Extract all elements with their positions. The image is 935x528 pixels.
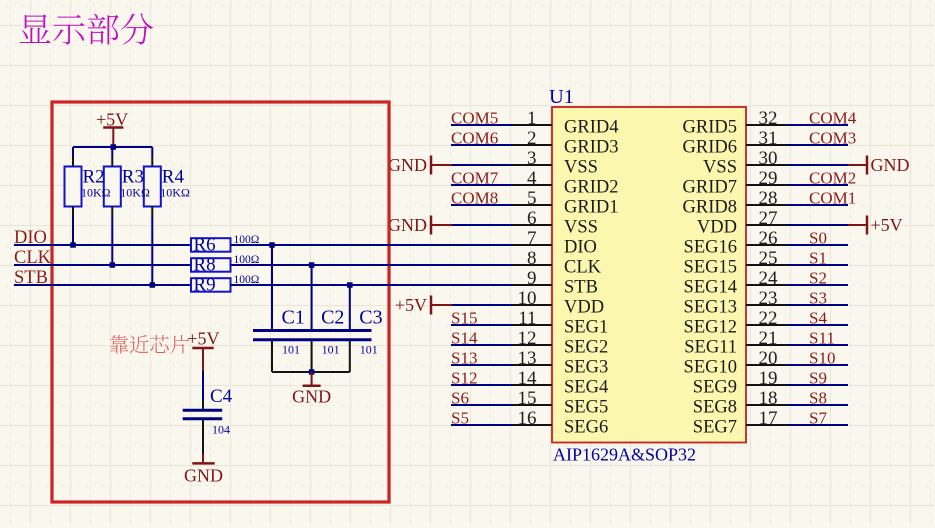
svg-text:S13: S13 xyxy=(451,349,477,368)
svg-text:VSS: VSS xyxy=(564,218,598,238)
svg-text:+5V: +5V xyxy=(395,295,427,315)
svg-text:SEG8: SEG8 xyxy=(693,398,737,418)
svg-text:SEG2: SEG2 xyxy=(564,338,608,358)
svg-text:SEG9: SEG9 xyxy=(693,378,737,398)
svg-text:S3: S3 xyxy=(809,289,827,308)
svg-text:104: 104 xyxy=(212,423,230,437)
svg-text:S14: S14 xyxy=(451,329,478,348)
svg-text:C1: C1 xyxy=(282,307,305,329)
svg-text:R4: R4 xyxy=(162,167,185,188)
svg-text:S12: S12 xyxy=(451,369,477,388)
svg-text:COM8: COM8 xyxy=(451,189,498,208)
svg-text:S0: S0 xyxy=(809,229,827,248)
svg-text:SEG3: SEG3 xyxy=(564,358,608,378)
svg-text:COM1: COM1 xyxy=(809,189,856,208)
svg-text:COM7: COM7 xyxy=(451,169,499,188)
svg-text:S2: S2 xyxy=(809,269,827,288)
svg-text:10KΩ: 10KΩ xyxy=(120,186,150,200)
svg-text:S7: S7 xyxy=(809,409,827,428)
svg-text:SEG6: SEG6 xyxy=(564,418,608,438)
svg-text:S6: S6 xyxy=(451,389,469,408)
svg-text:GRID4: GRID4 xyxy=(564,118,618,138)
svg-text:SEG11: SEG11 xyxy=(684,338,737,358)
svg-text:GRID3: GRID3 xyxy=(564,138,618,158)
svg-text:GRID1: GRID1 xyxy=(564,198,618,218)
svg-text:GND: GND xyxy=(388,155,427,175)
svg-text:GRID5: GRID5 xyxy=(683,118,737,138)
svg-text:GND: GND xyxy=(184,466,223,486)
svg-text:DIO: DIO xyxy=(564,238,597,258)
svg-text:100Ω: 100Ω xyxy=(234,254,260,266)
svg-text:101: 101 xyxy=(360,343,378,357)
svg-text:+5V: +5V xyxy=(187,329,219,349)
svg-text:VDD: VDD xyxy=(564,298,604,318)
svg-text:COM3: COM3 xyxy=(809,129,856,148)
svg-text:COM4: COM4 xyxy=(809,109,857,128)
svg-text:SEG15: SEG15 xyxy=(684,258,737,278)
svg-text:C4: C4 xyxy=(210,386,233,407)
svg-text:100Ω: 100Ω xyxy=(234,274,260,286)
svg-text:S4: S4 xyxy=(809,309,827,328)
svg-text:SEG14: SEG14 xyxy=(684,278,737,298)
svg-text:AIP1629A&SOP32: AIP1629A&SOP32 xyxy=(553,445,696,465)
svg-text:10KΩ: 10KΩ xyxy=(160,186,190,200)
svg-text:GRID6: GRID6 xyxy=(683,138,737,158)
svg-text:COM2: COM2 xyxy=(809,169,856,188)
svg-text:S5: S5 xyxy=(451,409,469,428)
svg-text:S10: S10 xyxy=(809,349,835,368)
svg-text:SEG13: SEG13 xyxy=(684,298,737,318)
svg-text:C3: C3 xyxy=(359,307,382,329)
svg-text:VSS: VSS xyxy=(564,158,598,178)
svg-text:R2: R2 xyxy=(83,167,105,188)
svg-text:GND: GND xyxy=(388,215,427,235)
svg-text:S8: S8 xyxy=(809,389,827,408)
svg-text:+5V: +5V xyxy=(871,215,903,235)
svg-text:R9: R9 xyxy=(194,275,216,296)
svg-text:SEG16: SEG16 xyxy=(684,238,737,258)
svg-text:10KΩ: 10KΩ xyxy=(81,186,111,200)
svg-text:SEG4: SEG4 xyxy=(564,378,608,398)
svg-text:SEG5: SEG5 xyxy=(564,398,608,418)
svg-text:R6: R6 xyxy=(194,235,216,256)
svg-text:SEG1: SEG1 xyxy=(564,318,608,338)
svg-text:GRID8: GRID8 xyxy=(683,198,737,218)
svg-text:STB: STB xyxy=(564,278,598,298)
svg-text:+5V: +5V xyxy=(96,110,128,130)
svg-text:COM5: COM5 xyxy=(451,109,498,128)
svg-text:GRID2: GRID2 xyxy=(564,178,618,198)
svg-text:SEG10: SEG10 xyxy=(684,358,737,378)
svg-text:R3: R3 xyxy=(122,167,144,188)
svg-text:CLK: CLK xyxy=(564,258,602,278)
svg-text:101: 101 xyxy=(282,343,300,357)
svg-text:SEG12: SEG12 xyxy=(684,318,737,338)
svg-text:S15: S15 xyxy=(451,309,477,328)
svg-text:R8: R8 xyxy=(194,255,216,276)
svg-text:100Ω: 100Ω xyxy=(234,234,260,246)
svg-text:COM6: COM6 xyxy=(451,129,498,148)
svg-text:101: 101 xyxy=(322,343,340,357)
svg-text:VDD: VDD xyxy=(697,218,737,238)
svg-text:GND: GND xyxy=(871,155,910,175)
svg-text:S9: S9 xyxy=(809,369,827,388)
svg-text:GND: GND xyxy=(292,387,331,407)
svg-text:C2: C2 xyxy=(321,307,344,329)
svg-text:S11: S11 xyxy=(809,329,835,348)
svg-text:SEG7: SEG7 xyxy=(693,418,737,438)
svg-text:S1: S1 xyxy=(809,249,827,268)
svg-text:U1: U1 xyxy=(549,86,574,108)
svg-text:VSS: VSS xyxy=(703,158,737,178)
svg-text:GRID7: GRID7 xyxy=(683,178,737,198)
